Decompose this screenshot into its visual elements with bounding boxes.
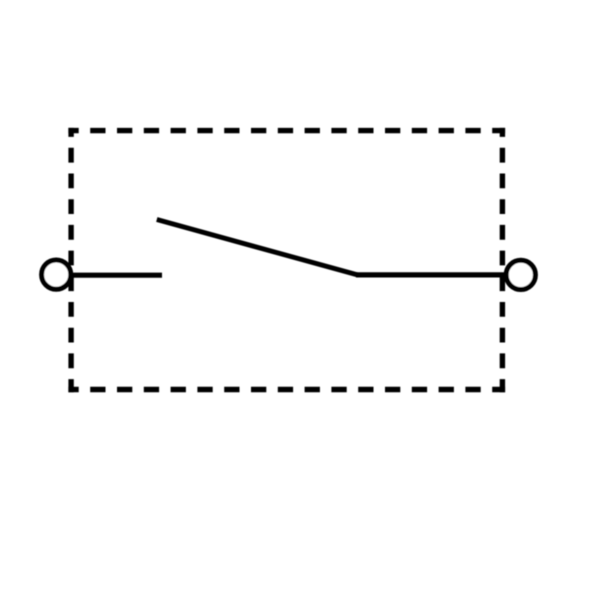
enclosure dashed box: left edge (68, 128, 73, 392)
wire to right terminal (356, 272, 521, 277)
switch lever (open contact arm) (157, 220, 358, 275)
enclosure dashed box: top edge (68, 128, 505, 133)
enclosure dashed box: right edge (500, 128, 505, 392)
terminal circle (left pin) (42, 260, 71, 289)
enclosure dashed box: bottom edge (68, 387, 505, 392)
wire from left terminal (56, 273, 162, 278)
terminal circle (right pin) (506, 260, 535, 289)
